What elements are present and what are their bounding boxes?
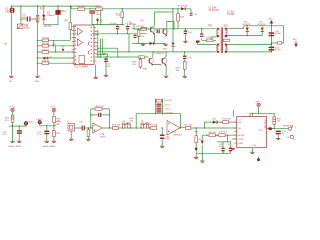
ground Q3 emitter xyxy=(164,76,168,77)
svg-text:T3 BD139: T3 BD139 xyxy=(154,53,165,55)
svg-text:R5 10k: R5 10k xyxy=(78,6,86,8)
wire filter vertical xyxy=(270,26,272,52)
diode D1 xyxy=(42,6,55,28)
svg-text:BYW29: BYW29 xyxy=(243,24,251,26)
capacitor C11 vertical right xyxy=(190,13,199,16)
op-amp IC3 power stage driver xyxy=(167,121,182,137)
svg-text:C4 4n7: C4 4n7 xyxy=(110,23,118,25)
svg-text:OK1: OK1 xyxy=(61,10,66,13)
resistor R37 bootstrap xyxy=(273,117,282,129)
wire bottom gnd bus xyxy=(197,152,231,161)
transistor Q2 xyxy=(162,28,167,37)
connector X1 xyxy=(5,7,14,13)
connector X2 speaker xyxy=(283,125,293,131)
ground block2 a xyxy=(45,141,49,142)
wire Q1 emitter line xyxy=(132,33,166,43)
capacitor C12 on HV rail drop xyxy=(200,29,216,41)
supply arrow -35V right xyxy=(292,39,298,47)
resistor R15 below xyxy=(137,28,140,36)
svg-text:4700u: 4700u xyxy=(275,33,282,35)
wire y57 line from IC1 to T2 xyxy=(97,39,149,57)
varistor VDR1 xyxy=(17,24,30,30)
capacitor C28 output zobel xyxy=(276,131,287,140)
svg-text:-15V: -15V xyxy=(51,107,56,109)
wire opamp A output xyxy=(102,127,112,129)
op-amp IC2A xyxy=(93,123,107,139)
resistor R26 to ground xyxy=(86,127,90,140)
ground block1 b xyxy=(17,141,21,142)
diode D9 rectifier xyxy=(258,22,266,32)
resistor R4 xyxy=(65,6,72,40)
ground IC4 left corner xyxy=(231,148,235,150)
transformer TR1 primary windings xyxy=(217,29,219,52)
supply arrow +35V xyxy=(268,18,274,26)
node junction dots on rails xyxy=(11,5,179,9)
resistor R9 rung3 xyxy=(42,51,48,54)
svg-text:1N4007: 1N4007 xyxy=(47,15,55,17)
resistor R34 xyxy=(223,119,232,124)
supply port -15V xyxy=(51,107,56,112)
svg-text:AGND: AGND xyxy=(43,145,49,148)
supply port +15V xyxy=(9,107,15,112)
resistor R32 series output xyxy=(184,125,193,130)
SEC3: oscillator xyxy=(92,9,150,38)
resistor R21 flanking xyxy=(224,39,230,41)
svg-text:D5 BY299: D5 BY299 xyxy=(178,5,189,7)
svg-text:R36 10k: R36 10k xyxy=(219,132,228,134)
wire mains left vertical xyxy=(10,6,12,75)
svg-text:LINE: LINE xyxy=(55,124,60,126)
capacitor C1 xyxy=(22,13,31,21)
svg-text:GND: GND xyxy=(163,48,168,50)
resistor R24 xyxy=(53,112,62,123)
svg-text:R3 47k: R3 47k xyxy=(44,26,52,28)
resistor R17 damping xyxy=(207,39,213,42)
diode D6 vertical xyxy=(171,9,174,52)
connector X3 xyxy=(287,135,295,139)
svg-text:GND: GND xyxy=(238,143,243,145)
ground D6 bottom xyxy=(163,44,168,50)
resistor R8 rung2 xyxy=(42,45,48,48)
svg-text:R10 1k: R10 1k xyxy=(42,61,50,63)
resistor R33 vertical xyxy=(195,128,203,143)
svg-text:R9 4k7: R9 4k7 xyxy=(42,49,49,51)
svg-text:C23 1u: C23 1u xyxy=(164,109,172,111)
IC1 right pin stubs xyxy=(94,28,97,62)
svg-text:R35 20k: R35 20k xyxy=(209,132,218,134)
svg-text:R27 47k: R27 47k xyxy=(96,106,105,108)
wire signal line to IC4 xyxy=(196,127,237,129)
svg-text:AGND: AGND xyxy=(50,145,56,148)
IC1 left pin stubs xyxy=(72,27,75,64)
transformer TR1 secondary windings xyxy=(226,29,228,52)
wire comp feedback xyxy=(98,39,118,57)
svg-text:STBY: STBY xyxy=(238,139,244,141)
IC1 pin numbers xyxy=(75,26,92,64)
svg-text:230V: 230V xyxy=(5,11,11,14)
SEC7: bottom-left blocks xyxy=(2,107,61,149)
wire standby line upper xyxy=(204,122,236,128)
wire transformer left mid xyxy=(211,37,216,40)
wire second rail xyxy=(71,6,191,9)
LED LED2 xyxy=(37,119,43,126)
svg-text:AGND: AGND xyxy=(16,145,22,148)
resistor R7 rung1 xyxy=(42,39,48,42)
wire rectifier top rail xyxy=(244,26,284,31)
ground R20 xyxy=(183,76,187,77)
wire Q2 collector xyxy=(167,22,174,29)
svg-text:R32 100: R32 100 xyxy=(184,125,193,127)
svg-text:100n: 100n xyxy=(22,17,28,19)
optocoupler OK1 xyxy=(52,6,67,25)
ground port bottom right xyxy=(257,157,260,162)
svg-text:MUTE: MUTE xyxy=(238,135,245,137)
capacitor C25 to ground xyxy=(160,127,171,147)
resistor R27 feedback xyxy=(95,108,102,111)
svg-text:4700u: 4700u xyxy=(275,49,282,51)
svg-text:R8 10k: R8 10k xyxy=(42,43,50,45)
svg-text:C22 1u: C22 1u xyxy=(164,105,172,107)
svg-text:TDA7294V: TDA7294V xyxy=(263,119,266,130)
op-amp IC1 TL494 box xyxy=(74,25,94,68)
svg-text:GND: GND xyxy=(35,81,40,83)
capacitor C5 xyxy=(125,23,133,34)
capacitor stack C22 xyxy=(155,99,174,115)
node ladder dots xyxy=(37,40,57,64)
SEC6: grounds xyxy=(4,41,188,83)
svg-text:IC1 TL494N: IC1 TL494N xyxy=(75,65,89,68)
resistor R30 series into power amp xyxy=(150,125,159,130)
wire transformer left lower xyxy=(198,43,217,45)
trimmer network P2 xyxy=(140,121,150,129)
IC4 TDA7294 box xyxy=(237,117,267,148)
wire Q1 collector to top xyxy=(155,12,174,26)
svg-text:TL072: TL072 xyxy=(100,137,107,139)
resistor R25 vertical xyxy=(53,131,61,137)
svg-text:TR1: TR1 xyxy=(208,26,213,28)
svg-text:R6 10k: R6 10k xyxy=(95,6,103,8)
svg-text:+15V: +15V xyxy=(9,107,15,109)
svg-text:R34 10k: R34 10k xyxy=(223,119,232,121)
ground bottom left xyxy=(200,161,204,162)
LED LED1 xyxy=(24,121,34,126)
ground snubber C10 xyxy=(183,41,187,42)
SEC8: preamp chain xyxy=(55,99,196,148)
transformer TR1 core xyxy=(221,28,222,54)
inductor L3 output blob xyxy=(268,127,272,130)
ground block1 a xyxy=(10,141,14,142)
svg-text:R7 47k: R7 47k xyxy=(42,38,50,40)
diode D8 rectifier xyxy=(243,22,251,37)
resistor R36 xyxy=(219,132,228,137)
wire feedback loop A xyxy=(91,109,110,128)
transformer pin pads xyxy=(217,28,227,53)
connector K1 input xyxy=(55,122,75,132)
wire aux vertical xyxy=(232,110,234,117)
SEC9: power amp IC4 xyxy=(194,102,295,163)
resistor R23 xyxy=(5,112,14,123)
capacitor C8 xyxy=(134,34,145,38)
wire block1 node xyxy=(9,122,26,141)
svg-text:R12: R12 xyxy=(116,15,121,17)
ground K1 xyxy=(69,131,73,140)
svg-text:AGND: AGND xyxy=(9,145,15,148)
ground PE left xyxy=(9,76,14,83)
wire feedback node vertical xyxy=(136,114,180,128)
resistor R14 base xyxy=(140,20,146,30)
diode D10 xyxy=(212,118,218,123)
resistor R13 xyxy=(134,25,150,31)
transistor Q1 xyxy=(129,21,155,34)
capacitor C15 xyxy=(183,52,192,62)
supply port +35V xyxy=(255,102,261,107)
resistor R2 on left ladder line xyxy=(36,16,39,23)
wire to trimmer P2 xyxy=(133,127,141,129)
svg-text:-35V: -35V xyxy=(292,39,297,41)
resistor R22 bleeder xyxy=(271,31,284,44)
capacitor C26 xyxy=(219,144,225,153)
wire Q3 collector/emitter xyxy=(98,34,216,76)
resistor R12 timing xyxy=(116,9,124,25)
ground C14 xyxy=(104,75,108,76)
diode D4 on emitter line xyxy=(150,42,155,45)
capacitor C10 snubber xyxy=(184,29,193,41)
svg-text:BC639: BC639 xyxy=(129,24,136,26)
wire secondary to rectifier xyxy=(227,26,271,52)
ground Q1 emitter line xyxy=(141,43,145,46)
svg-text:OUT: OUT xyxy=(259,130,264,132)
svg-text:L2 3u3: L2 3u3 xyxy=(227,11,235,13)
wire input line xyxy=(75,127,93,129)
resistor R5 on rail2 xyxy=(78,6,86,10)
resistor R18 on y57 xyxy=(139,56,144,59)
transistor Q3 BD139 xyxy=(154,53,167,66)
resistor R35 xyxy=(209,132,218,137)
resistor R6 on rail2 xyxy=(95,6,103,10)
svg-text:R28 10k: R28 10k xyxy=(112,125,121,127)
resistor R28 series xyxy=(112,125,122,130)
svg-text:R30 680: R30 680 xyxy=(150,125,159,127)
svg-text:IN-: IN- xyxy=(238,128,241,130)
ground block2 b xyxy=(52,141,56,142)
resistor R10 rung5 xyxy=(42,62,48,65)
wire Q2 emitter to rail xyxy=(166,29,168,36)
wire cap feed line xyxy=(217,135,231,148)
wire main HV rail xyxy=(132,28,216,30)
diode D2 xyxy=(96,18,103,25)
wire to X-cap xyxy=(21,6,38,24)
svg-text:+35V: +35V xyxy=(268,18,274,20)
IC4 left pin stubs xyxy=(234,122,237,143)
wire oscillator node lines xyxy=(92,25,147,34)
transistor Q4 driver a xyxy=(148,51,161,66)
ground ladder xyxy=(35,76,40,83)
wire ladder main vertical xyxy=(37,6,39,75)
diode D5 xyxy=(178,5,189,10)
capacitor C21 feedback xyxy=(98,113,101,117)
SEC2: IC1 and ladder xyxy=(37,6,97,75)
wire ladder rungs xyxy=(38,40,75,63)
SEC5: transformer and rectifier xyxy=(196,11,298,53)
wire mute line y135 xyxy=(202,134,237,136)
wire output of IC3 xyxy=(180,127,196,129)
svg-text:BYW29: BYW29 xyxy=(258,24,266,26)
capacitor C19 xyxy=(37,131,50,137)
svg-text:NE5534: NE5534 xyxy=(174,134,183,136)
wire top supply rail xyxy=(250,107,274,117)
SEC4: drivers xyxy=(97,5,220,76)
capacitor C3 electrolytic xyxy=(89,10,101,24)
wire top right diode segment xyxy=(190,9,192,12)
svg-text:R31 22k: R31 22k xyxy=(164,100,173,102)
capacitor C14 at IC pin xyxy=(104,57,111,75)
wire short stby xyxy=(232,138,237,140)
ground IC4 bottom xyxy=(250,148,254,154)
wire top rail VCC xyxy=(11,5,101,7)
wire IC1 right bus xyxy=(97,30,98,57)
trimmer network P1 xyxy=(122,121,133,129)
diode D3 rung4 xyxy=(44,57,49,60)
resistor R16 xyxy=(177,9,185,29)
svg-text:LED1: LED1 xyxy=(28,122,34,124)
diode D11 mute network xyxy=(194,143,198,159)
diode D12 vertical left xyxy=(201,135,204,153)
capacitor C27 xyxy=(227,144,233,151)
capacitor C4 xyxy=(110,23,120,34)
capacitor C7 left of IC xyxy=(74,25,78,40)
capacitor C17 xyxy=(269,47,282,52)
svg-text:C 100n: C 100n xyxy=(227,14,235,16)
resistor R19 vertical xyxy=(132,57,147,70)
capacitor C9 coupling xyxy=(157,30,160,34)
svg-text:K250: K250 xyxy=(24,28,30,30)
capacitor C16 xyxy=(269,31,282,37)
capacitor C20 input xyxy=(79,122,85,131)
capacitor C18 xyxy=(2,130,22,136)
wire block2 node xyxy=(40,123,56,141)
svg-text:SEC: SEC xyxy=(224,26,229,28)
svg-text:T1 5+5:90: T1 5+5:90 xyxy=(209,10,220,12)
svg-text:+35V: +35V xyxy=(255,102,261,104)
wire rail2 drop to oscillator node xyxy=(100,9,102,24)
svg-text:100n: 100n xyxy=(165,139,171,141)
svg-text:LED2: LED2 xyxy=(37,119,43,121)
svg-text:GND: GND xyxy=(142,68,147,70)
ground IC1 xyxy=(94,65,98,79)
SEC1: top rails and left input xyxy=(5,5,191,75)
svg-text:C24 100n: C24 100n xyxy=(164,112,174,114)
wire Q1 base line xyxy=(134,28,141,30)
resistor R20 vertical xyxy=(176,62,186,76)
wire IC4 output line xyxy=(266,128,288,130)
svg-text:SPEAKER: SPEAKER xyxy=(283,125,293,128)
